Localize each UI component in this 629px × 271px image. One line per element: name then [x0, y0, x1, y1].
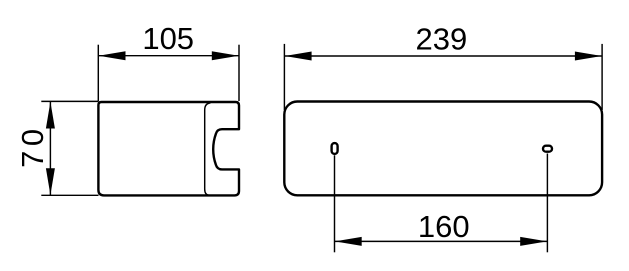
dim 70 top arrowhead [46, 102, 55, 129]
side view inner thin line (front plate edge) [205, 103, 211, 195]
dim 160 right arrowhead [520, 237, 547, 246]
dim 105 dimension line [98, 55, 239, 57]
dim 239 left extension line [283, 44, 285, 110]
dim 160 right extension line [546, 154, 548, 253]
dim 70 bottom extension line [41, 194, 98, 196]
dim 105 right arrowhead [212, 51, 239, 60]
dim 160 left extension line [334, 155, 336, 252]
svg-text:160: 160 [418, 209, 470, 244]
dim 105 left arrowhead [99, 51, 126, 60]
dim 239 dimension line [284, 55, 602, 57]
dim 160 dimension line [335, 240, 548, 242]
svg-text:239: 239 [416, 21, 468, 56]
dim 239 right arrowhead [575, 52, 602, 61]
dim 70 dimension line [49, 101, 51, 195]
dim 105 left extension line [97, 45, 99, 101]
front view body outline [284, 102, 602, 196]
dim 105 right extension line [238, 45, 240, 101]
dim 70 bottom arrowhead [46, 168, 55, 195]
dim 160 left arrowhead [335, 237, 362, 246]
side view body outline with hook notch [98, 102, 239, 195]
left mounting slot (vertical) [332, 143, 338, 154]
dim 239 right extension line [601, 44, 603, 110]
right mounting slot (horizontal) [543, 146, 552, 152]
svg-text:105: 105 [142, 21, 194, 56]
dim 239 left arrowhead [285, 52, 312, 61]
dim 70 top extension line [41, 100, 98, 102]
